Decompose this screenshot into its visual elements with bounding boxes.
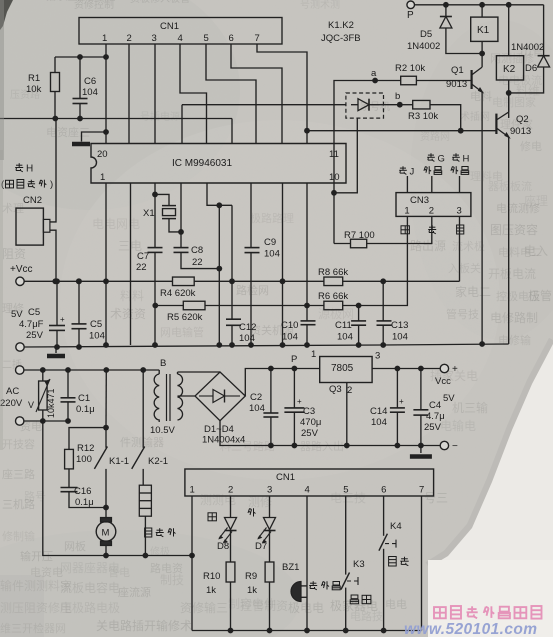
resistor R1	[26, 57, 60, 119]
label brown blue white	[401, 225, 464, 234]
svg-text:流板电容电: 流板电容电	[60, 580, 120, 595]
svg-text:资路网: 资路网	[420, 130, 450, 143]
wire IC pin10 node	[331, 118, 357, 196]
terminal +Vcc	[10, 264, 33, 285]
wire node R1 top	[55, 56, 106, 58]
resistor R7 100	[334, 216, 432, 247]
svg-text:5V: 5V	[443, 393, 455, 404]
svg-text:K1-1: K1-1	[109, 456, 129, 467]
svg-text:K1.K2: K1.K2	[328, 20, 354, 31]
svg-text:104: 104	[264, 249, 280, 260]
relay K2	[496, 5, 523, 118]
svg-text:极路路理: 极路路理	[250, 211, 294, 225]
svg-text:C16: C16	[74, 486, 91, 497]
wire CN1.5 staircase to IC	[206, 44, 256, 144]
svg-text:C7: C7	[137, 251, 149, 262]
svg-text:3: 3	[375, 351, 380, 362]
switch K4	[379, 496, 409, 631]
svg-text:术插网: 术插网	[460, 110, 490, 123]
capacitor C14 104	[370, 369, 405, 449]
node P2	[271, 354, 320, 371]
svg-text:K2: K2	[503, 64, 516, 75]
svg-text:电输电: 电输电	[440, 418, 476, 433]
svg-text:C3: C3	[303, 406, 315, 417]
svg-text:Vcc: Vcc	[435, 376, 451, 387]
svg-text:a: a	[371, 68, 377, 79]
svg-text:座理: 座理	[524, 193, 548, 208]
wire CN1b pin1	[191, 496, 193, 631]
svg-text:+Vcc: +Vcc	[10, 264, 33, 275]
svg-text:开技容: 开技容	[2, 437, 35, 451]
switch K3	[341, 496, 371, 631]
wire Vcc rail	[24, 278, 172, 284]
svg-text:2: 2	[429, 206, 434, 217]
svg-text:104: 104	[371, 417, 387, 428]
wire CN1b pin7	[421, 496, 423, 631]
transistor Q1 9013	[446, 65, 483, 93]
svg-text:104: 104	[239, 333, 255, 344]
wire gnd branch pin20	[82, 132, 107, 142]
svg-text:C5: C5	[28, 307, 40, 318]
wire IC pin5 branch	[207, 183, 232, 208]
svg-text:P: P	[291, 354, 297, 365]
svg-text:管号技: 管号技	[446, 307, 479, 321]
svg-text:22: 22	[192, 257, 203, 268]
wire minus rail	[271, 445, 440, 447]
svg-text:1: 1	[102, 33, 107, 44]
wire sensor net	[0, 116, 232, 144]
svg-text:1k: 1k	[206, 585, 216, 596]
svg-text:K3: K3	[353, 559, 365, 570]
relay K1	[471, 5, 498, 67]
svg-text:J: J	[410, 167, 415, 178]
wire CN2 pin1	[50, 119, 56, 222]
svg-text:CN2: CN2	[23, 195, 42, 206]
svg-text:X1: X1	[143, 208, 155, 219]
svg-text:入板关: 入板关	[448, 261, 481, 275]
svg-text:C1: C1	[78, 393, 90, 404]
resistor R9 1k	[245, 531, 274, 631]
svg-text:D6: D6	[525, 63, 537, 74]
wire CN1b pin4	[306, 496, 308, 631]
svg-text:C8: C8	[191, 245, 203, 256]
svg-text:资修控制: 资修控制	[74, 0, 114, 11]
wire CN1.3 to IC	[154, 44, 156, 144]
svg-text:电修输: 电修输	[498, 333, 531, 347]
svg-text:1: 1	[311, 349, 316, 360]
wire bridge minus	[220, 421, 271, 446]
capacitor C6	[73, 54, 98, 118]
svg-text:0.1μ: 0.1μ	[76, 404, 95, 415]
resistor R10 1k	[203, 531, 235, 631]
wire gnd rail	[24, 344, 509, 347]
svg-text:D8: D8	[217, 541, 229, 552]
wire Q2 base net	[307, 128, 496, 134]
svg-text:家电二: 家电二	[455, 284, 491, 299]
svg-text:9013: 9013	[446, 79, 467, 90]
wire AC bottom	[24, 418, 71, 424]
svg-text:R12: R12	[77, 443, 94, 454]
watermark	[404, 606, 542, 637]
svg-text:R4 620k: R4 620k	[160, 288, 196, 299]
wire b-net from IC	[182, 105, 346, 144]
svg-text:CN3: CN3	[410, 195, 429, 206]
svg-text:R10: R10	[203, 571, 220, 582]
svg-text:C11: C11	[335, 320, 352, 331]
svg-text:+: +	[60, 315, 65, 324]
svg-text:4: 4	[178, 33, 183, 44]
svg-text:制技: 制技	[160, 573, 184, 587]
wire CN1.7 staircase to IC	[257, 44, 310, 144]
svg-text:1: 1	[404, 206, 409, 217]
svg-text:Q2: Q2	[516, 114, 529, 125]
svg-text:路电资: 路电资	[150, 562, 183, 575]
svg-text:C4: C4	[429, 400, 441, 411]
svg-text:料料: 料料	[120, 289, 144, 303]
svg-text:10k: 10k	[26, 84, 42, 95]
svg-text:1k: 1k	[247, 585, 257, 596]
svg-text:座三路: 座三路	[2, 467, 35, 481]
capacitor C12 104	[226, 205, 256, 348]
wire +V top rail	[415, 2, 544, 8]
svg-text:号测术测: 号测术测	[300, 0, 340, 11]
switch K1-1	[94, 428, 129, 511]
svg-text:20: 20	[97, 149, 108, 160]
svg-text:Q1: Q1	[451, 65, 464, 76]
svg-text:路出源: 路出源	[410, 238, 446, 253]
capacitor C16 0.1u	[61, 469, 107, 508]
LED D8 green	[208, 496, 237, 552]
label K1.K2 JQC-3FB	[321, 20, 361, 44]
wire CN3 pin1 down	[383, 216, 407, 305]
wire CN3 pin3 down	[459, 216, 461, 281]
transformer B	[150, 358, 220, 436]
wire IC pin8 down	[280, 183, 286, 348]
diode D5 1N4002	[407, 5, 482, 54]
svg-text:料维: 料维	[516, 84, 540, 98]
wire Q1 emitter to gnd	[479, 92, 485, 347]
capacitor C9 104	[245, 183, 280, 348]
svg-text:R7 100: R7 100	[344, 230, 375, 241]
svg-text:电修路制: 电修路制	[490, 310, 538, 325]
svg-text:R9: R9	[245, 571, 257, 582]
svg-text:3: 3	[457, 206, 462, 217]
svg-text:H: H	[26, 164, 33, 175]
svg-text:2: 2	[347, 385, 352, 396]
svg-text:图压资容: 图压资容	[490, 222, 538, 237]
svg-text:机三输: 机三输	[452, 400, 488, 415]
svg-text:座流源: 座流源	[118, 585, 151, 599]
svg-text:开板电流: 开板电流	[488, 267, 536, 281]
resistor R12 100	[65, 428, 106, 469]
capacitor C5b 104	[72, 278, 105, 350]
svg-text:IC M9946031: IC M9946031	[172, 158, 232, 169]
svg-text:电极路电极: 电极路电极	[60, 600, 120, 615]
diode opto	[351, 99, 384, 111]
op-amp U1 IC M9946031	[91, 144, 346, 184]
terminal Vcc plus	[435, 364, 458, 404]
connector CN2	[16, 208, 50, 245]
svg-text:极电电: 极电电	[288, 601, 324, 615]
connector CN1 (top)	[79, 18, 282, 45]
terminal AC N	[16, 417, 24, 425]
wire Vcc rail right	[343, 280, 460, 282]
scan dark edge	[0, 0, 13, 450]
wire a to IC pin11	[334, 81, 375, 193]
diode D6 1N4002	[509, 5, 550, 93]
svg-text:10k471: 10k471	[46, 388, 56, 418]
svg-text:修制输: 修制输	[2, 529, 35, 543]
svg-text:D7: D7	[255, 541, 267, 552]
svg-text:号三: 号三	[424, 491, 448, 505]
svg-text:0.1μ: 0.1μ	[75, 497, 94, 508]
svg-text:2: 2	[127, 33, 132, 44]
connector CN3	[396, 193, 471, 217]
svg-text:管电: 管电	[108, 565, 130, 579]
svg-text:C2: C2	[250, 392, 262, 403]
svg-text:BZ1: BZ1	[282, 562, 299, 573]
svg-text:5: 5	[343, 485, 348, 496]
svg-text:104: 104	[89, 331, 105, 342]
wire pin10 down	[333, 193, 335, 244]
wire R6 right	[343, 305, 384, 307]
svg-text:25V: 25V	[301, 428, 319, 439]
wire 7805 out	[372, 366, 440, 372]
resistor R2 10k	[375, 63, 472, 85]
capacitor C7 22	[136, 183, 163, 348]
svg-text:R2 10k: R2 10k	[395, 63, 425, 74]
svg-text:R8 66k: R8 66k	[318, 267, 348, 278]
wire K1-1 top	[103, 370, 109, 431]
capacitor C10 104	[281, 183, 316, 348]
bridge rectifier D1-D4	[195, 372, 245, 446]
wire CN2 pin2	[50, 230, 56, 281]
svg-text:D5: D5	[420, 29, 432, 40]
svg-text:7: 7	[419, 485, 424, 496]
ground (psu)	[410, 446, 432, 457]
svg-text:网板: 网板	[64, 539, 86, 553]
svg-text:路检网: 路检网	[236, 283, 269, 297]
svg-text:6: 6	[229, 33, 234, 44]
svg-text:104: 104	[249, 403, 265, 414]
svg-text:G: G	[438, 154, 445, 165]
svg-text:P: P	[407, 10, 414, 21]
connector CN1 (bottom)	[185, 469, 434, 496]
svg-text:B: B	[160, 358, 166, 369]
wire bridge plus	[245, 369, 271, 397]
svg-text:制容电件: 制容电件	[228, 596, 276, 611]
terminal Vcc minus	[440, 441, 458, 452]
svg-text:修电: 修电	[520, 139, 542, 153]
terminal AC L	[16, 366, 24, 374]
regulator 7805	[311, 349, 380, 448]
svg-text:C12: C12	[239, 322, 256, 333]
svg-text:3: 3	[152, 33, 157, 44]
svg-text:C5: C5	[90, 319, 102, 330]
label go-H sensor	[1, 163, 53, 206]
svg-text:M: M	[102, 528, 110, 539]
svg-text:R3 10k: R3 10k	[408, 111, 438, 122]
wire jog down	[216, 205, 222, 348]
svg-text:CN1: CN1	[276, 472, 295, 483]
svg-text:): )	[50, 179, 53, 190]
buzzer BZ1	[282, 562, 340, 602]
wire bottom rail	[192, 628, 422, 634]
svg-text:H: H	[463, 154, 470, 165]
svg-text:CN1: CN1	[160, 21, 179, 32]
svg-text:9013: 9013	[510, 126, 531, 137]
ground (near IC pin20)	[72, 142, 90, 147]
wire CN1.6 staircase to IC	[231, 44, 282, 144]
svg-text:电入: 电入	[524, 244, 548, 258]
svg-text:电路技: 电路技	[350, 610, 383, 623]
node b	[384, 91, 403, 108]
switch K2-1	[132, 370, 168, 485]
terminal P	[407, 1, 415, 21]
svg-text:4.7μ: 4.7μ	[426, 411, 445, 422]
svg-text:资板修入板管: 资板修入板管	[130, 0, 190, 5]
motor M	[96, 508, 116, 559]
scan white corner	[0, 340, 553, 637]
wire CN3 pin3 up	[459, 176, 461, 193]
svg-text:−: −	[452, 441, 458, 452]
svg-text:AC: AC	[6, 386, 19, 397]
wire CN1.4 staircase to IC	[180, 44, 207, 144]
svg-text:104: 104	[392, 332, 408, 343]
svg-text:104: 104	[282, 332, 298, 343]
wire CN1.2 to IC	[128, 44, 130, 144]
svg-text:220V: 220V	[0, 398, 23, 409]
label go-G go-H	[427, 153, 469, 164]
varistor 10k471	[28, 370, 56, 421]
svg-text:极管: 极管	[528, 288, 552, 303]
svg-text:Q3: Q3	[329, 384, 342, 395]
svg-text:470μ: 470μ	[300, 417, 321, 428]
svg-text:C13: C13	[391, 320, 408, 331]
resistor R5 620k	[167, 301, 205, 323]
svg-text:www.520101.com: www.520101.com	[404, 621, 537, 637]
svg-text:+: +	[297, 397, 302, 406]
svg-text:流术极: 流术极	[452, 239, 485, 253]
svg-text:7: 7	[255, 33, 260, 44]
svg-text:C14: C14	[370, 406, 387, 417]
svg-text:R6 66k: R6 66k	[318, 291, 348, 302]
node a	[371, 68, 378, 83]
svg-text:b: b	[395, 91, 400, 102]
svg-text:25V: 25V	[424, 422, 442, 433]
svg-text:理料电: 理料电	[470, 169, 503, 183]
svg-text:2: 2	[228, 485, 233, 496]
svg-text:4.7μF: 4.7μF	[19, 319, 44, 330]
svg-text:K4: K4	[390, 521, 402, 532]
resistor R3 10k	[400, 100, 461, 130]
svg-text:1: 1	[190, 485, 195, 496]
capacitor C11 104	[335, 303, 366, 348]
svg-text:104: 104	[82, 87, 98, 98]
svg-text:R1: R1	[28, 73, 40, 84]
svg-text:网电输管: 网电输管	[160, 325, 204, 339]
svg-text:7805: 7805	[331, 363, 354, 374]
svg-text:C10: C10	[281, 320, 298, 331]
svg-text:4: 4	[305, 485, 310, 496]
label AC 220V	[0, 386, 23, 409]
wire motor rail	[106, 553, 195, 559]
svg-text:术资资: 术资资	[110, 307, 146, 321]
capacitor C1 0.1u	[61, 370, 95, 421]
capacitor C8 22	[174, 183, 220, 269]
wire IC pin2 down	[130, 183, 132, 345]
wire Q2 emitter to gnd	[508, 137, 510, 344]
wire R5-R6 row	[205, 305, 324, 307]
svg-text:1N4002: 1N4002	[511, 42, 544, 53]
svg-text:阻资: 阻资	[2, 247, 26, 261]
svg-text:1N4004x4: 1N4004x4	[202, 435, 245, 446]
wire IC pin1 down	[103, 183, 109, 348]
svg-text:K2-1: K2-1	[148, 456, 168, 467]
svg-text:K1: K1	[477, 25, 490, 36]
capacitor C4 4.7u	[413, 369, 444, 449]
wire CN3 pin2 up	[431, 176, 433, 193]
svg-text:电电: 电电	[385, 598, 407, 611]
svg-text:5: 5	[204, 33, 209, 44]
svg-text:1: 1	[100, 172, 105, 183]
wire CN3 pin1 up	[406, 176, 408, 193]
LED D7 red	[248, 496, 276, 552]
svg-text:号插电源: 号插电源	[140, 110, 180, 123]
resistor R6 66k	[318, 291, 348, 310]
svg-text:+: +	[399, 397, 404, 406]
capacitor C3 470u	[284, 369, 321, 449]
svg-text:R5 620k: R5 620k	[167, 312, 203, 323]
svg-text:1N4002: 1N4002	[407, 41, 440, 52]
resistor R4 620k	[160, 277, 196, 299]
wire R5 row	[152, 303, 183, 309]
capacitor C2 104	[249, 366, 278, 449]
svg-text:C9: C9	[264, 237, 276, 248]
wire Vcc rail mid	[194, 280, 324, 282]
svg-text:电电网电: 电电网电	[92, 217, 140, 231]
wire left rail	[43, 421, 106, 556]
svg-text:D1~D4: D1~D4	[204, 424, 234, 435]
svg-text:25V: 25V	[26, 330, 44, 341]
label go-J shell shell	[399, 166, 469, 177]
svg-text:C6: C6	[84, 76, 96, 87]
resistor R8 66k	[318, 267, 348, 286]
svg-text:104: 104	[337, 332, 353, 343]
svg-text:6: 6	[381, 485, 386, 496]
capacitor C13 104	[377, 278, 409, 348]
wire AC top	[24, 367, 159, 373]
transistor Q2 9013	[496, 93, 531, 138]
svg-text:关电路插开输修术: 关电路插开输修术	[96, 618, 192, 633]
svg-text:+: +	[452, 364, 458, 375]
wire CN1.1 to IC pin20	[103, 44, 109, 144]
svg-text:3: 3	[267, 485, 272, 496]
crystal X1	[143, 192, 184, 235]
capacitor C5 4.7uF	[11, 278, 65, 350]
svg-text:V: V	[28, 400, 34, 410]
svg-text:JQC-3FB: JQC-3FB	[321, 33, 361, 44]
svg-text:10.5V: 10.5V	[150, 425, 175, 436]
ground (main)	[47, 347, 65, 356]
optocoupler U2	[346, 93, 384, 118]
heater element	[139, 485, 175, 555]
terminal GND left	[16, 343, 24, 351]
svg-text:22: 22	[136, 262, 147, 273]
svg-text:件测输器: 件测输器	[120, 435, 164, 449]
svg-text:100: 100	[76, 454, 92, 465]
svg-text:资修输三: 资修输三	[180, 600, 228, 615]
